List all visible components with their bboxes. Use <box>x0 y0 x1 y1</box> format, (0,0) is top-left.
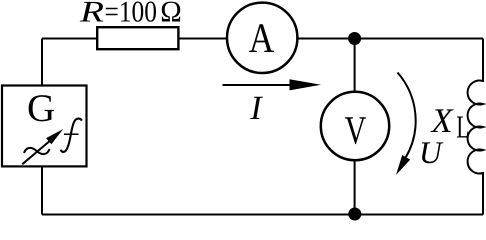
wire right rail lower <box>482 172 484 215</box>
svg-text:V: V <box>345 108 367 153</box>
ammeter U1 (circle) <box>227 3 297 73</box>
node top junction dot <box>348 32 361 45</box>
generator tilde (sine symbol) <box>24 148 50 154</box>
node bottom junction dot <box>348 208 361 221</box>
voltage arrow U (curved arc) <box>398 73 416 158</box>
svg-text:X: X <box>430 102 455 140</box>
wire left rail <box>41 39 43 215</box>
svg-text:U: U <box>419 135 444 170</box>
svg-text:G: G <box>27 87 55 130</box>
inductor XL coil (4 loops) <box>468 81 483 174</box>
svg-text:I: I <box>249 90 263 127</box>
current arrow I head <box>290 79 322 90</box>
svg-text:L: L <box>456 109 469 145</box>
wire top (left corner to right corner) <box>42 38 483 40</box>
generator label f <box>61 119 82 152</box>
wire bottom <box>42 214 483 216</box>
voltmeter U2 (circle) <box>321 92 389 160</box>
generator adjust arrow shaft <box>22 140 51 165</box>
resistor R (rectangle) <box>97 27 178 49</box>
voltage arrow U head <box>396 155 410 175</box>
generator box G <box>2 86 87 167</box>
svg-text:R=100Ω: R=100Ω <box>79 0 182 29</box>
wire right rail upper <box>482 39 484 83</box>
current arrow I shaft <box>223 84 293 86</box>
svg-text:A: A <box>249 16 275 62</box>
wire voltmeter branch <box>354 39 356 215</box>
generator adjust arrow head <box>46 129 63 144</box>
